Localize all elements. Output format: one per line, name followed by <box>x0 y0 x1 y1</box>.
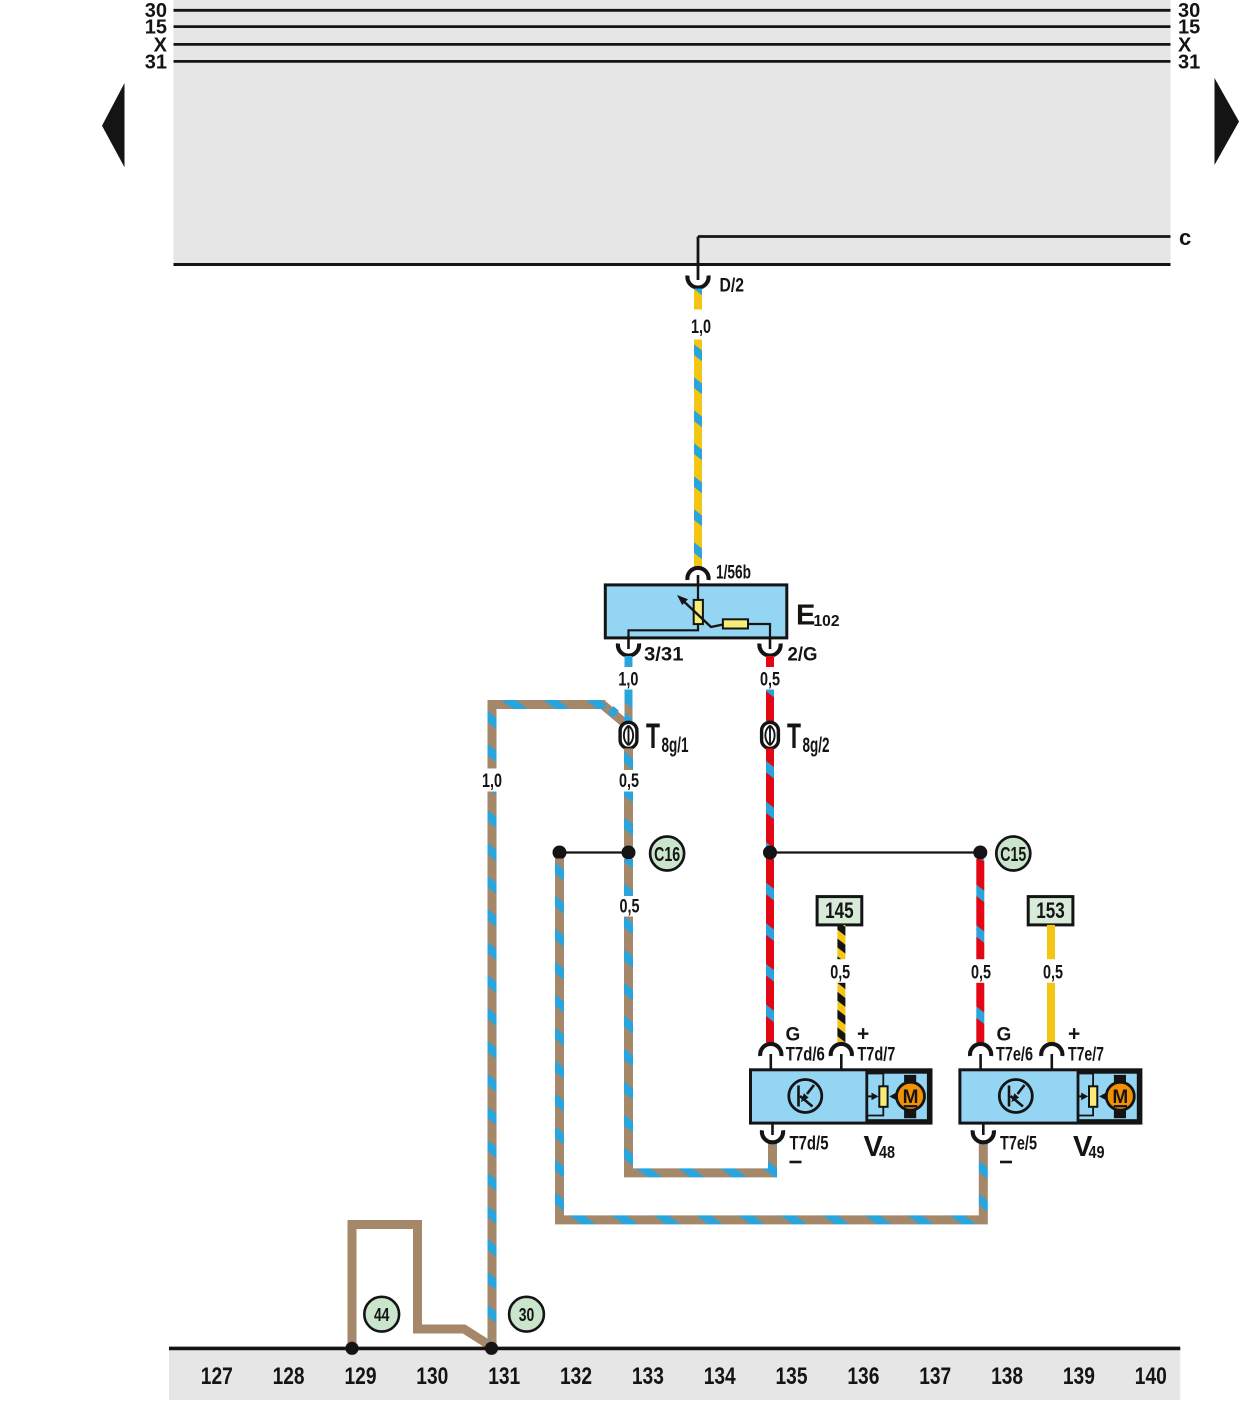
wire yellow/blue lower <box>694 340 702 567</box>
svg-text:+: + <box>1068 1023 1080 1046</box>
connector T7d/6 <box>760 1044 781 1056</box>
svg-text:E: E <box>796 600 815 632</box>
node box 145 <box>817 897 862 925</box>
connector 1/56b <box>687 568 708 580</box>
connector D/2 <box>687 276 708 288</box>
svg-text:8g/1: 8g/1 <box>662 734 689 757</box>
wire brown/blue to node C16 <box>624 792 633 847</box>
E102 internal right lead <box>748 624 770 638</box>
E102 internal left lead <box>629 624 699 638</box>
svg-text:138: 138 <box>991 1363 1023 1390</box>
svg-text:133: 133 <box>632 1363 664 1390</box>
svg-text:1,0: 1,0 <box>618 670 638 691</box>
svg-text:137: 137 <box>919 1363 951 1390</box>
ground dot 129 <box>345 1342 358 1355</box>
svg-text:T7e/7: T7e/7 <box>1068 1045 1104 1066</box>
splice connector T8g/1 <box>620 722 637 748</box>
svg-text:M: M <box>903 1087 919 1108</box>
svg-text:134: 134 <box>704 1363 737 1390</box>
connector T7d/5 <box>762 1130 783 1142</box>
wire blue/brown 3/31 upper <box>625 656 633 667</box>
svg-text:145: 145 <box>825 898 854 923</box>
resistor leads V49 <box>1078 1074 1093 1116</box>
right page arrow <box>1215 78 1240 165</box>
junction dot <box>763 846 777 860</box>
wire brown/blue C16 to T7d/5 upper <box>624 859 633 896</box>
wire yellow 153 lower <box>1047 983 1055 1043</box>
label minus <box>1000 1161 1012 1164</box>
wire brown/blue below T8g/1 <box>624 748 633 770</box>
svg-text:30: 30 <box>519 1305 535 1325</box>
svg-text:1,0: 1,0 <box>691 317 711 338</box>
E102 internal top lead <box>697 586 699 600</box>
bus bar 31 <box>174 60 1171 63</box>
motor brushes V48 <box>904 1075 916 1084</box>
wire red/blue C15 to T7e/6 upper <box>976 859 984 959</box>
pin stub T7d/7 <box>840 1054 843 1071</box>
wire brown/blue C16 to T7e/5 <box>560 859 984 1220</box>
junction dot <box>622 846 636 860</box>
wire yellow/blue upper <box>694 289 702 310</box>
svg-text:0,5: 0,5 <box>760 670 780 691</box>
svg-text:T7d/5: T7d/5 <box>790 1134 829 1155</box>
svg-text:M: M <box>1112 1087 1128 1108</box>
connector T7e/5 <box>973 1130 994 1142</box>
svg-text:T7e/5: T7e/5 <box>1000 1134 1037 1155</box>
resistor element V49 <box>1089 1086 1097 1107</box>
svg-text:0,5: 0,5 <box>619 771 639 792</box>
svg-text:0,5: 0,5 <box>620 897 640 918</box>
wire yellow 153 upper <box>1047 925 1055 959</box>
svg-text:129: 129 <box>345 1363 377 1390</box>
node box 153 <box>1028 897 1073 925</box>
pin stub T7d/5 <box>771 1123 774 1135</box>
svg-text:136: 136 <box>847 1363 879 1390</box>
svg-text:135: 135 <box>776 1363 808 1390</box>
svg-text:D/2: D/2 <box>720 276 745 297</box>
svg-text:2/G: 2/G <box>788 645 818 666</box>
svg-text:G: G <box>997 1025 1012 1046</box>
svg-text:130: 130 <box>416 1363 448 1390</box>
svg-text:1,0: 1,0 <box>482 771 502 792</box>
svg-text:131: 131 <box>488 1363 520 1390</box>
motor sub-box V48 <box>867 1072 929 1120</box>
node marker C16 <box>650 837 684 871</box>
connector pin 2/G <box>759 644 780 656</box>
svg-text:102: 102 <box>814 613 840 630</box>
ground marker 44 <box>364 1297 399 1332</box>
wire brown/blue main feed lower <box>488 792 497 1347</box>
label minus <box>790 1161 802 1164</box>
svg-text:T: T <box>787 717 801 756</box>
arrow left V49 <box>1078 1095 1082 1097</box>
pin stub 1/56b <box>697 575 700 587</box>
svg-text:T7d/7: T7d/7 <box>857 1045 895 1066</box>
sensor symbol V49 <box>999 1080 1032 1113</box>
svg-text:128: 128 <box>273 1363 305 1390</box>
connector T7e/6 <box>970 1044 991 1056</box>
svg-text:44: 44 <box>374 1305 390 1325</box>
svg-text:C16: C16 <box>654 844 680 866</box>
left page arrow <box>102 83 125 167</box>
bus bar 30 <box>174 9 1171 12</box>
motor brushes V49 <box>1114 1075 1126 1084</box>
svg-text:0,5: 0,5 <box>971 963 991 984</box>
arrow right V49 <box>1099 1093 1106 1101</box>
node C15 link <box>770 851 980 853</box>
arrow right V48 <box>889 1093 896 1101</box>
pin stub T7e/7 <box>1051 1054 1054 1071</box>
wire brown/blue main feed diagonal <box>603 705 628 726</box>
ground jumper wire brown <box>352 1225 492 1347</box>
resistor element E102 <box>723 619 748 628</box>
wire black/yellow 145 upper <box>837 925 845 959</box>
svg-text:49: 49 <box>1089 1142 1105 1162</box>
pin stub T7d/6 <box>769 1054 772 1071</box>
ground bus line <box>169 1347 1180 1351</box>
motor V48 box <box>751 1070 932 1123</box>
connector pin 3/31 <box>618 644 639 656</box>
wire brown/blue main feed upper <box>492 705 606 769</box>
ground dot 131 <box>485 1342 498 1355</box>
net c line <box>698 235 1171 238</box>
svg-text:+: + <box>857 1023 869 1046</box>
svg-text:140: 140 <box>1135 1363 1167 1390</box>
svg-text:T7e/6: T7e/6 <box>996 1045 1033 1066</box>
wire red/blue below T8g/2 <box>766 748 774 1042</box>
wire brown/blue C16 to T7d/5 lower <box>629 917 773 1173</box>
svg-text:48: 48 <box>879 1142 895 1162</box>
svg-text:0,5: 0,5 <box>830 963 850 984</box>
svg-text:T7d/6: T7d/6 <box>786 1045 825 1066</box>
dimmer E102 box <box>605 585 787 638</box>
band bottom edge <box>174 263 1171 266</box>
arrow left V48 <box>867 1095 872 1097</box>
motor V49 box <box>960 1070 1141 1123</box>
connector T7d/7 <box>831 1044 852 1056</box>
svg-text:1/56b: 1/56b <box>716 563 751 584</box>
top power rail band <box>174 0 1171 265</box>
motor M symbol V48 <box>897 1082 925 1110</box>
wire red/blue 2/G upper <box>766 656 774 667</box>
potentiometer element E102 <box>694 600 703 624</box>
pin stub 3/31 <box>627 638 630 649</box>
svg-text:3/31: 3/31 <box>644 645 684 666</box>
svg-text:T: T <box>646 717 660 756</box>
splice connector T8g/2 <box>762 722 779 748</box>
resistor leads V48 <box>867 1074 884 1116</box>
wire red/blue C15 to T7e/6 lower <box>976 983 984 1043</box>
junction dot <box>553 846 567 860</box>
svg-text:127: 127 <box>201 1363 233 1390</box>
wire red/blue 2/G lower <box>766 690 774 723</box>
svg-text:8g/2: 8g/2 <box>803 734 830 757</box>
pin stub T7e/6 <box>979 1054 982 1071</box>
net c drop wire <box>697 237 700 281</box>
sensor symbol V48 <box>789 1080 822 1113</box>
ground marker 30 <box>509 1297 544 1332</box>
wire black/yellow 145 lower <box>837 983 845 1043</box>
svg-text:132: 132 <box>560 1363 592 1390</box>
resistor element V48 <box>879 1086 887 1107</box>
junction dot <box>973 846 987 860</box>
svg-text:C15: C15 <box>1000 844 1026 866</box>
wire blue/brown 3/31 lower <box>625 690 633 723</box>
bottom ground band <box>169 1350 1180 1400</box>
motor M symbol V49 <box>1106 1082 1134 1110</box>
bus bar X <box>174 43 1171 46</box>
pin stub 2/G <box>769 638 772 649</box>
svg-text:153: 153 <box>1036 898 1065 923</box>
svg-text:c: c <box>1179 225 1191 250</box>
svg-text:31: 31 <box>1178 51 1200 73</box>
potentiometer arrow <box>682 599 724 627</box>
node marker C15 <box>996 837 1030 871</box>
node C16 link <box>560 851 629 853</box>
bus bar 15 <box>174 25 1171 28</box>
motor sub-box V49 <box>1078 1072 1138 1120</box>
svg-text:G: G <box>786 1025 801 1046</box>
pin stub T7e/5 <box>982 1123 985 1135</box>
svg-text:31: 31 <box>145 51 167 73</box>
connector T7e/7 <box>1041 1044 1062 1056</box>
svg-text:0,5: 0,5 <box>1043 963 1063 984</box>
svg-text:139: 139 <box>1063 1363 1095 1390</box>
